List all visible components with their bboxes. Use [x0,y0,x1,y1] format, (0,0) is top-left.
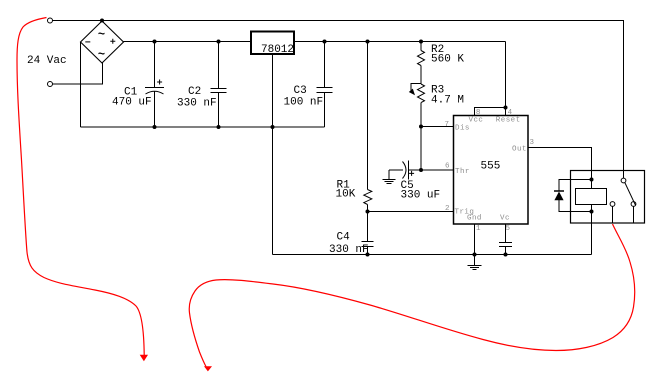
junction dot R1 bottom Trig node [366,210,370,214]
svg-text:3: 3 [530,139,535,147]
op-amp U1 555 timer box [454,116,529,225]
svg-text:7: 7 [445,121,450,129]
svg-text:Reset: Reset [496,117,521,125]
relay coil [576,189,607,205]
red annotation stroke left [17,18,148,362]
wire ground rail of power section [81,126,325,128]
wire from J2 to bridge bottom vertex [53,63,103,85]
svg-text:C3: C3 [294,85,307,97]
svg-text:~: ~ [98,48,105,62]
junction dot C4 bottom [366,253,370,257]
capacitor C3 100nF [317,42,333,128]
pin label Thr [455,168,470,176]
relay K1 box [571,171,645,224]
svg-text:555: 555 [481,161,501,173]
junction dot C2 top [217,40,221,44]
svg-text:Vcc: Vcc [469,117,484,125]
svg-text:Dis: Dis [455,125,470,133]
capacitor C2 330nF [211,42,227,128]
label R2 560 K [431,44,464,66]
wire pin7 Dis [421,126,454,128]
svg-text:6: 6 [445,163,450,171]
diode D2 flyback [554,180,564,212]
pin label Trig [455,209,475,217]
switch contact right [631,202,636,207]
pin number 3 [530,139,535,147]
wire pin2 Trig [368,211,454,213]
junction dot coil bottom [590,210,594,214]
svg-text:4.7 M: 4.7 M [431,95,464,107]
junction dot bridge top to rail [100,19,104,23]
junction dot R3 bottom pin7 [419,125,423,129]
wire right contact to box edge [633,206,635,223]
bridge rectifier D1 [81,21,124,63]
wire pin3 Out to relay coil and down to rail [528,148,592,255]
pin label Gnd [467,215,482,223]
junction dot R1 top [366,40,370,44]
svg-text:2: 2 [445,205,450,213]
wire bottom ground rail [273,254,592,256]
svg-text:470 uF: 470 uF [112,97,152,109]
wire bridge positive to regulator input [124,41,252,43]
pin number 8 [476,109,481,117]
svg-text:330 nF: 330 nF [177,98,217,110]
svg-text:C4: C4 [337,232,351,244]
label 555 [481,161,501,173]
junction dot pin1 at rail [473,253,477,257]
label 24 Vac [27,55,67,67]
capacitor C4 330nF [362,212,374,255]
wire R3 junction down to Thr node [420,127,422,171]
switch blade [625,183,636,206]
junction dot pin4 link [504,106,508,110]
wire pin6 Thr [409,169,454,171]
svg-text:Vc: Vc [500,215,510,223]
wire diode bottom [559,211,592,213]
capacitor pin5 Vc bypass [499,224,512,255]
label C2 330 nF [177,86,217,110]
junction dot C3 top [323,40,327,44]
svg-text:5: 5 [506,225,511,233]
resistor R1 10K [364,42,372,212]
pin number 1 [476,225,481,233]
label C5 330 uF [401,180,441,202]
junction dot coil top [590,178,594,182]
junction dot C1 top [153,40,157,44]
wire left contact to box edge [612,206,614,223]
pin number 5 [506,225,511,233]
svg-text:100 nF: 100 nF [284,97,324,109]
svg-text:560 K: 560 K [431,54,464,66]
pin label Dis [455,125,470,133]
svg-text:Gnd: Gnd [467,215,482,223]
pin label Reset [496,117,521,125]
ground symbol main [468,255,482,270]
junction dot C2 bottom [217,125,221,129]
pin label Vcc [469,117,484,125]
junction dot Thr node [419,168,423,172]
pin number 4 [508,109,513,117]
junction dot R2 top [419,40,423,44]
pin number 6 [445,163,450,171]
label C4 330 nF [329,232,369,257]
pin label Out [512,146,527,154]
pin label Vc [500,215,510,223]
junction dot C1 bottom [153,125,157,129]
label C3 100 nF [284,85,324,109]
svg-text:24 Vac: 24 Vac [27,55,67,67]
capacitor C1 470uF polarized [145,42,164,128]
label R3 4.7 M [431,85,464,107]
resistor R3 4.7M variable with arrow [409,84,425,127]
switch common contact [621,178,626,183]
junction dot regulator ground at rail [271,125,275,129]
svg-text:78012: 78012 [261,44,294,56]
pin number 2 [445,205,450,213]
ground for C5 [383,180,396,184]
wire regulator ground pin down [272,54,274,255]
junction dot pin5 at rail [504,253,508,257]
svg-text:1: 1 [476,225,481,233]
svg-text:330 uF: 330 uF [401,190,441,202]
resistor R2 560K [418,42,425,85]
svg-text:Out: Out [512,146,527,154]
capacitor C5 330uF polarized [389,161,414,180]
svg-text:10K: 10K [336,189,356,201]
wire pin1 Gnd down to rail [474,224,476,255]
wire diode top [559,179,592,181]
switch contact left [610,202,615,207]
pin number 7 [445,121,450,129]
terminal J2 (AC input bottom) [48,82,53,87]
red annotation stroke right from relay contact [189,224,634,371]
svg-text:C2: C2 [188,86,201,98]
svg-text:~: ~ [98,28,105,42]
pin 8 stub and link to pin 4 [475,108,506,116]
wire bridge negative down to ground rail [80,42,82,127]
label R1 10K [336,180,356,201]
terminal J1 (AC input top) [48,18,53,23]
wire regulator output +12V [294,41,506,43]
svg-text:Thr: Thr [455,168,470,176]
wire +12V down to pin 4 [505,42,507,116]
label C1 470 uF [112,87,152,109]
wire top rail from input terminal to relay switch [53,21,624,179]
regulator U2 78012 [251,32,294,57]
